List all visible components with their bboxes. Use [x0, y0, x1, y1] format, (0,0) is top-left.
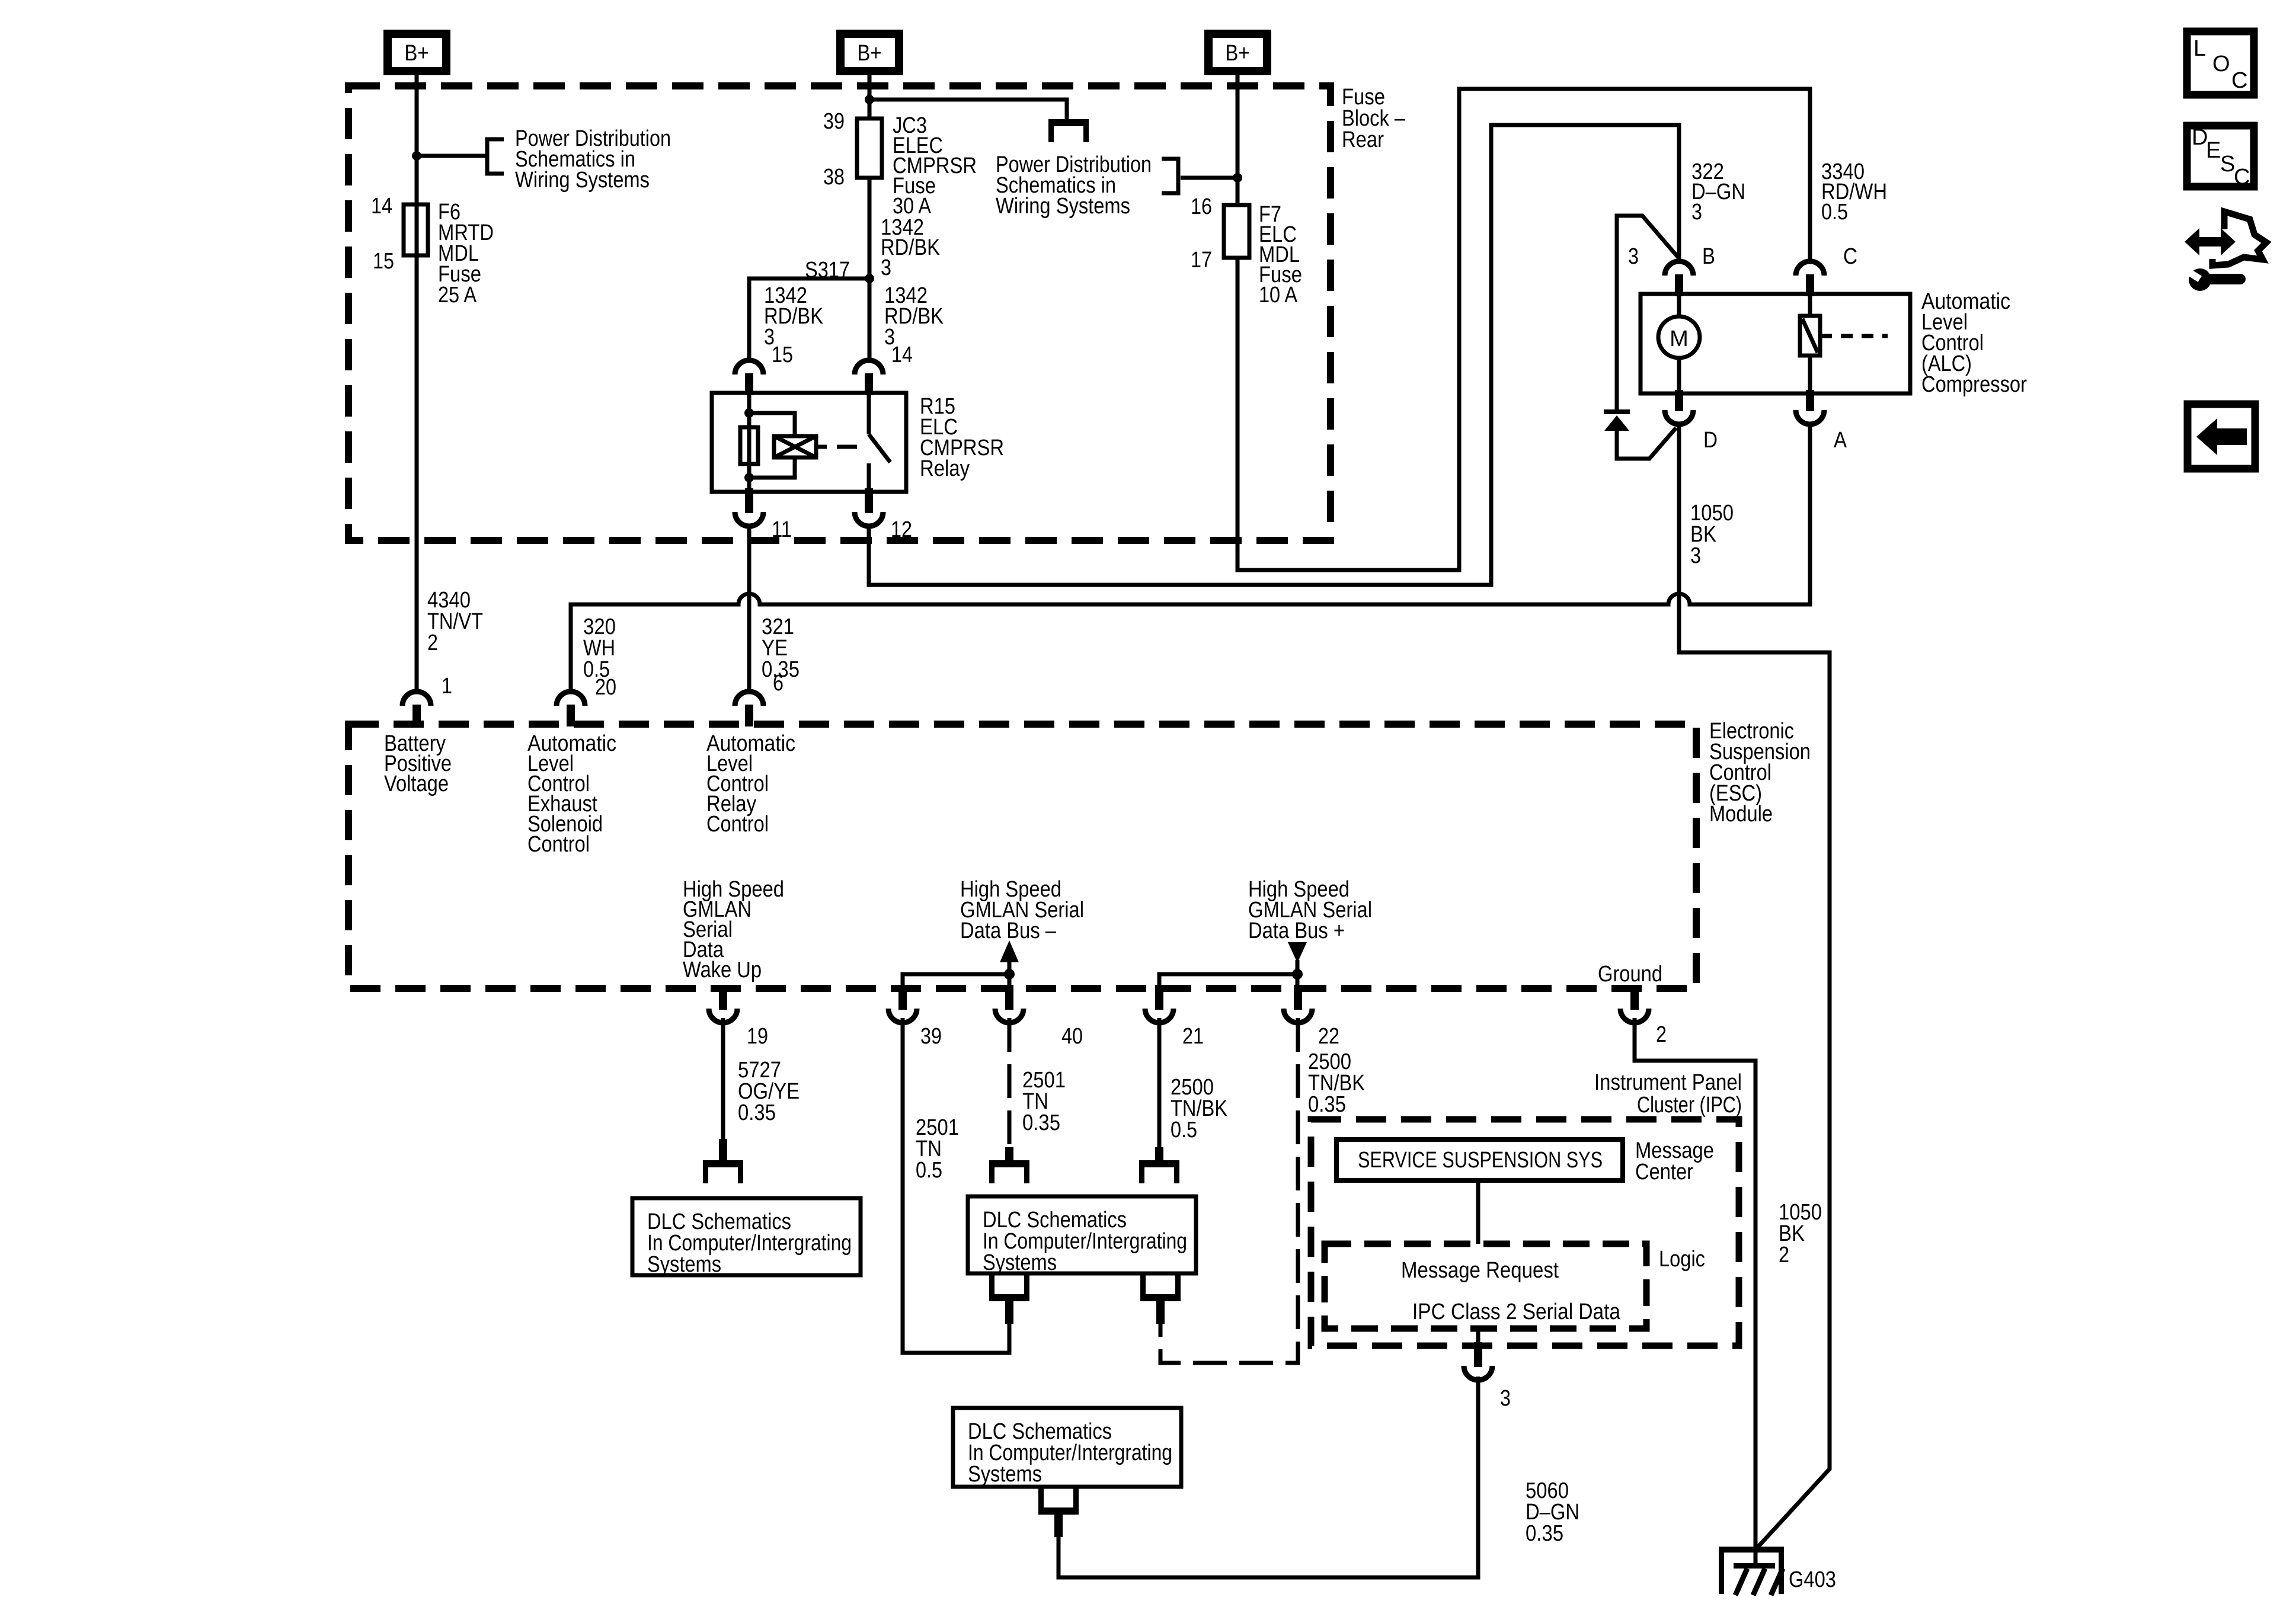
svg-text:Voltage: Voltage	[384, 772, 449, 796]
ground symbol G403	[1719, 1547, 1784, 1595]
label high speed GMLAN serial data bus plus	[1248, 877, 1372, 943]
svg-text:21: 21	[1182, 1024, 1204, 1049]
wire 5060 D-GN DLC box 3 to IPC pin 3	[1059, 1377, 1478, 1577]
wire B+2 junction to page bracket	[869, 100, 1067, 120]
label electronic suspension control module	[1709, 719, 1811, 827]
svg-text:22: 22	[1318, 1024, 1339, 1049]
svg-text:Control: Control	[527, 832, 590, 857]
relay pin 11 connector	[735, 488, 763, 526]
page reference bracket (B+2 feed)	[1048, 119, 1089, 142]
svg-text:0.35: 0.35	[1526, 1521, 1563, 1546]
svg-text:B+: B+	[405, 41, 429, 66]
svg-text:D: D	[1703, 428, 1718, 453]
label DLC schematics 3	[968, 1419, 1172, 1487]
wire 3340 RD/WH F7 to compressor C	[1237, 89, 1810, 570]
ESC pin 6 connector	[735, 692, 763, 726]
wire label 1050 BK 3	[1690, 501, 1734, 568]
wire S317 branch to relay pin 15	[749, 279, 869, 361]
ESC pin 40 connector	[995, 985, 1024, 1023]
label automatic level control exhaust solenoid control	[527, 731, 616, 857]
svg-text:1: 1	[442, 674, 452, 699]
ESC module dashed box	[348, 724, 1696, 988]
label automatic level control relay control	[706, 731, 795, 837]
svg-text:G403: G403	[1789, 1567, 1836, 1592]
svg-text:3: 3	[881, 255, 891, 280]
relay pin 15 connector	[735, 360, 763, 395]
wire message center to logic	[1476, 1180, 1480, 1244]
svg-text:Center: Center	[1635, 1160, 1693, 1185]
svg-text:3: 3	[1691, 200, 1702, 225]
label high speed GMLAN serial data bus minus	[960, 877, 1084, 943]
compressor connector A	[1796, 390, 1824, 424]
label DLC schematics 2	[983, 1208, 1187, 1275]
instrument panel cluster dashed box	[1311, 1119, 1739, 1346]
data bus plus arrow (down)	[1288, 942, 1307, 974]
svg-text:L: L	[2193, 36, 2206, 61]
LOC nav box	[2187, 31, 2254, 95]
svg-text:Data Bus +: Data Bus +	[1248, 918, 1345, 943]
junction dot B+1	[412, 151, 421, 161]
wire B+1 down to ESC pin 1	[415, 75, 419, 692]
relay R15 box	[712, 393, 906, 492]
data bus minus arrow (up)	[1000, 940, 1019, 974]
DLC schematics box 1	[632, 1198, 861, 1275]
splice S317 dot	[865, 274, 874, 283]
wire label 1342 RD/BK 3 (left branch)	[764, 283, 823, 350]
stub from DLC bracket (pin 22 side)	[1156, 1301, 1165, 1324]
ESC pin 19 connector	[709, 985, 737, 1023]
svg-text:Compressor: Compressor	[1921, 372, 2027, 397]
B+ terminal 2	[840, 34, 899, 71]
wire label 2501 TN 0.35	[1022, 1068, 1066, 1135]
wire JC3 to S317 to relay pin 14	[868, 178, 872, 361]
svg-text:10 A: 10 A	[1259, 283, 1298, 308]
wire label 2501 TN 0.5	[916, 1115, 959, 1183]
svg-text:2: 2	[427, 630, 438, 655]
svg-text:C: C	[2231, 68, 2247, 93]
svg-text:2: 2	[1656, 1022, 1667, 1047]
top bracket DLC box 2 right	[1139, 1160, 1179, 1183]
svg-text:17: 17	[1191, 248, 1212, 273]
svg-text:Control: Control	[706, 812, 769, 837]
data bus plus wire to pin 22	[1296, 974, 1300, 985]
svg-text:A: A	[1834, 428, 1847, 453]
stub from DLC box 3 bracket	[1054, 1515, 1063, 1537]
wire label 1342 RD/BK 3 (right branch)	[884, 283, 944, 350]
svg-text:O: O	[2212, 52, 2230, 76]
junction dot B+3	[1233, 173, 1242, 183]
label F6 MRTD MDL fuse	[438, 200, 494, 308]
wire label 3340 RD/WH 0.5	[1821, 159, 1887, 225]
wire label 4340 TN/VT 2	[427, 588, 483, 655]
svg-text:0.5: 0.5	[916, 1158, 942, 1183]
svg-text:6: 6	[773, 671, 784, 696]
svg-text:0.5: 0.5	[1171, 1118, 1197, 1142]
diode triangle	[1604, 415, 1629, 431]
wire label 321 YE 0.35	[762, 614, 800, 682]
svg-text:11: 11	[772, 517, 792, 542]
svg-text:40: 40	[1061, 1024, 1083, 1049]
label power distribution schematics 1	[515, 126, 671, 193]
label Fuse Block Rear	[1342, 85, 1406, 152]
svg-text:12: 12	[891, 517, 912, 542]
svg-text:Wiring Systems: Wiring Systems	[515, 168, 650, 193]
compressor motor M	[1658, 316, 1700, 358]
DLC schematics box 2	[968, 1196, 1196, 1273]
label power distribution schematics 2	[996, 152, 1152, 219]
svg-text:0.35: 0.35	[1022, 1110, 1060, 1135]
ESC pin 1 connector	[402, 692, 431, 726]
svg-text:Wake Up: Wake Up	[683, 958, 762, 982]
svg-text:Systems: Systems	[647, 1252, 721, 1277]
wire label 1050 BK 2	[1779, 1200, 1822, 1267]
dashed wire 2501 TN 0.35 ESC 40	[1008, 1018, 1012, 1148]
compressor connector B	[1665, 261, 1693, 296]
relay node top	[744, 408, 754, 418]
wire label 5060 D-GN 0.35	[1526, 1478, 1579, 1546]
ESC pin 20 connector	[557, 692, 585, 726]
data bus minus wire to pin 40	[1008, 974, 1012, 985]
svg-text:3: 3	[1690, 543, 1701, 568]
label JC3 ELEC CMPRSR fuse	[893, 113, 977, 219]
ALC compressor box	[1641, 294, 1910, 393]
data bus minus internal wire	[903, 974, 1009, 985]
svg-text:Module: Module	[1709, 802, 1773, 827]
relay coil	[774, 436, 816, 457]
stub to DLC bracket 1	[719, 1139, 727, 1163]
diode CR (cathode bar)	[1604, 409, 1630, 414]
wire 1050 BK compressor D to ground	[1679, 422, 1830, 1550]
data bus plus internal wire	[1159, 974, 1297, 985]
DESC nav box	[2187, 125, 2254, 190]
svg-text:M: M	[1670, 327, 1689, 351]
svg-text:15: 15	[373, 249, 394, 274]
wire to power distribution bracket 2	[1181, 176, 1237, 180]
wire label 1342 RD/BK 3 (above S317)	[881, 215, 940, 280]
relay pin 14 connector	[855, 360, 883, 395]
power distribution bracket 2	[1162, 159, 1178, 193]
IPC pin 3 connector	[1464, 1342, 1492, 1380]
svg-text:IPC Class 2 Serial Data: IPC Class 2 Serial Data	[1412, 1299, 1621, 1324]
solenoid dashed actuation line	[1820, 334, 1888, 338]
label automatic level control compressor	[1921, 289, 2027, 397]
wire B+2 down to JC3 fuse	[868, 75, 872, 119]
ESC pin 21 connector	[1145, 985, 1173, 1023]
B+ terminal 1	[388, 34, 446, 71]
svg-text:0.5: 0.5	[1821, 200, 1848, 225]
label high speed GMLAN serial data wake up	[683, 877, 784, 982]
service suspension sys box	[1336, 1140, 1623, 1180]
dashed wire 2500 TN/BK 0.35 ESC 22 to DLC box 2 bottom	[1160, 1018, 1298, 1363]
svg-text:3: 3	[1500, 1386, 1511, 1411]
label message center	[1635, 1138, 1714, 1185]
svg-text:39: 39	[823, 109, 845, 134]
relay coil wires	[749, 413, 795, 478]
svg-text:3: 3	[1628, 244, 1639, 269]
svg-text:0.35: 0.35	[738, 1100, 776, 1125]
svg-text:Instrument Panel: Instrument Panel	[1594, 1070, 1742, 1095]
wire 5727 OG/YE ESC 19 to DLC	[721, 1018, 725, 1140]
compressor connector D	[1665, 390, 1693, 424]
svg-text:Wiring Systems: Wiring Systems	[996, 194, 1130, 219]
svg-text:B+: B+	[858, 41, 882, 66]
bracket to DLC box 1	[703, 1160, 743, 1183]
logic dashed box	[1325, 1244, 1646, 1329]
svg-text:20: 20	[595, 675, 616, 700]
label battery positive voltage	[384, 731, 452, 796]
relay resistor wire	[747, 393, 752, 492]
wire 322 D-GN relay pin 12 to compressor B	[869, 125, 1679, 585]
bottom bracket DLC box 2 right	[1140, 1273, 1181, 1301]
svg-text:Cluster (IPC): Cluster (IPC)	[1637, 1093, 1742, 1118]
wire logic to pin 3	[1476, 1329, 1480, 1346]
svg-text:Systems: Systems	[983, 1250, 1057, 1275]
stub to DLC bracket (pin 40)	[1005, 1147, 1013, 1163]
svg-text:14: 14	[371, 194, 392, 219]
wire 2500 TN/BK 0.5 ESC 21	[1157, 1018, 1162, 1148]
DLC schematics box 3	[953, 1408, 1181, 1487]
data bus plus junction dot	[1292, 969, 1303, 980]
svg-text:14: 14	[891, 343, 913, 367]
svg-text:2: 2	[1779, 1243, 1789, 1267]
svg-text:Rear: Rear	[1342, 127, 1384, 152]
svg-text:Message Request: Message Request	[1401, 1258, 1559, 1283]
bottom bracket DLC box 3	[1038, 1487, 1079, 1515]
wire label 322 D-GN 3	[1691, 159, 1745, 225]
compressor connector C	[1796, 261, 1824, 296]
svg-text:25 A: 25 A	[438, 283, 477, 308]
svg-text:39: 39	[920, 1024, 942, 1049]
power distribution bracket 1	[487, 139, 504, 174]
wire 2501 TN 0.5 ESC 39 to DLC box 2 bottom	[903, 1018, 1009, 1353]
relay coil-switch dashed link	[816, 445, 857, 449]
svg-text:SERVICE SUSPENSION SYS: SERVICE SUSPENSION SYS	[1358, 1148, 1603, 1173]
wire relay pin 11 to ESC pin 6	[747, 525, 752, 692]
svg-text:C: C	[2234, 165, 2250, 190]
motor wires	[1677, 294, 1681, 393]
label R15 ELC CMPRSR relay	[920, 394, 1004, 481]
wire label 320 WH 0.5	[583, 614, 616, 682]
svg-text:Logic: Logic	[1659, 1247, 1705, 1272]
back arrow nav box	[2188, 404, 2255, 469]
fuse F6	[404, 204, 428, 255]
junction dot B+2	[865, 95, 874, 104]
diode branch upper wire	[1617, 216, 1679, 409]
exhaust solenoid	[1800, 316, 1820, 356]
ESC pin 39 connector	[888, 985, 917, 1023]
svg-text:Data Bus –: Data Bus –	[960, 918, 1057, 943]
svg-text:38: 38	[823, 165, 845, 190]
svg-text:C: C	[1843, 244, 1857, 269]
svg-text:Systems: Systems	[968, 1462, 1042, 1487]
diode branch lower wire	[1617, 428, 1676, 459]
svg-text:B+: B+	[1226, 41, 1250, 66]
stub to DLC bracket (pin 21)	[1155, 1147, 1163, 1163]
svg-text:B: B	[1702, 244, 1715, 269]
svg-text:19: 19	[747, 1024, 768, 1049]
wire B+3 down to F7 fuse	[1236, 75, 1240, 205]
stub from DLC bracket (pin 39 side)	[1005, 1301, 1013, 1324]
top bracket DLC box 2 left	[989, 1160, 1029, 1183]
svg-text:0.35: 0.35	[1308, 1092, 1346, 1117]
ESC pin 2 connector	[1620, 985, 1649, 1023]
relay pin 12 connector	[855, 488, 883, 526]
wire label 5727 OG/YE 0.35	[738, 1058, 800, 1125]
wire 1050 BK 2 ESC pin 2 to G403	[1635, 1018, 1755, 1550]
data bus minus junction dot	[1004, 969, 1015, 980]
svg-text:S: S	[2220, 152, 2235, 177]
schematic navigation icon (double arrow with wrench)	[2184, 212, 2266, 291]
fuse F7	[1224, 205, 1249, 258]
fuse block rear dashed box	[348, 86, 1331, 540]
svg-text:Relay: Relay	[920, 456, 970, 481]
label DLC schematics 1	[647, 1209, 852, 1277]
wire label 2500 TN/BK 0.5	[1171, 1075, 1227, 1142]
svg-text:E: E	[2206, 138, 2221, 163]
relay resistor	[740, 427, 758, 464]
relay node bottom	[744, 473, 754, 482]
solenoid wires	[1808, 294, 1812, 393]
ESC pin 22 connector	[1284, 985, 1312, 1023]
svg-text:16: 16	[1191, 194, 1212, 219]
relay switch	[869, 393, 890, 492]
svg-text:Ground: Ground	[1598, 962, 1662, 987]
bottom bracket DLC box 2 left	[989, 1273, 1029, 1301]
svg-text:15: 15	[772, 343, 793, 367]
label F7 ELC MDL fuse	[1259, 202, 1302, 308]
wire 320 WH compressor A to ESC pin 20 (hops at 1264 and 2833)	[571, 422, 1810, 692]
wire label 2500 TN/BK 0.35	[1308, 1049, 1365, 1117]
B+ terminal 3	[1208, 34, 1267, 71]
wire to power distribution bracket 1	[417, 154, 487, 158]
fuse JC3	[857, 119, 882, 178]
